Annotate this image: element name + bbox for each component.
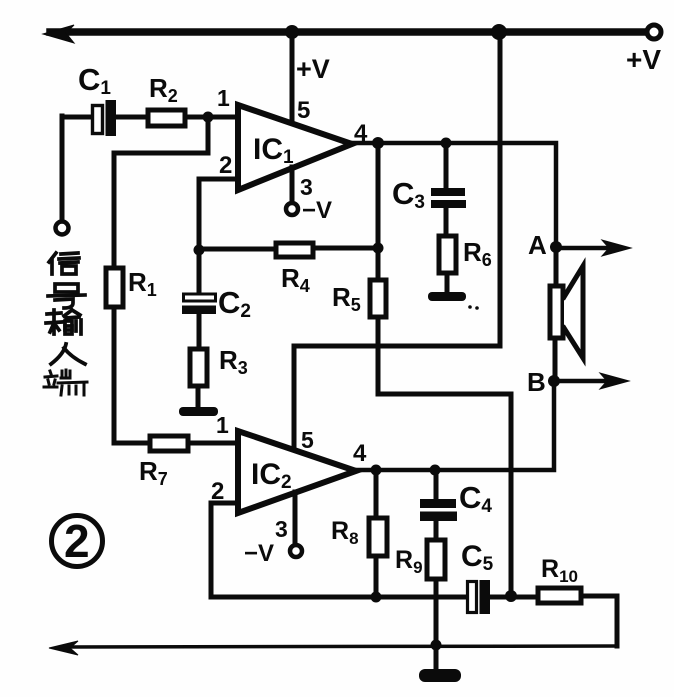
wire B to IC2 output bbox=[356, 381, 554, 470]
node B bbox=[548, 375, 560, 387]
svg-text:+V: +V bbox=[626, 44, 661, 75]
resistor R10 bbox=[510, 588, 617, 646]
svg-text:1: 1 bbox=[217, 85, 230, 111]
resistor R1 bbox=[106, 268, 123, 307]
capacitor C4 bbox=[420, 470, 457, 541]
node +V terminal right bbox=[647, 25, 661, 39]
char duan bbox=[44, 370, 87, 395]
wire R7 to IC2 pin1 bbox=[188, 441, 237, 446]
wire R6 to ground bbox=[445, 273, 450, 293]
node pin1 junction bbox=[203, 112, 214, 123]
svg-text:3: 3 bbox=[275, 516, 288, 542]
wire R9 to bottom rail bbox=[434, 579, 439, 645]
wire bottom -V rail bbox=[62, 646, 617, 647]
svg-text:4: 4 bbox=[354, 120, 368, 147]
wire +V drop to IC2 pin5 bbox=[294, 32, 500, 451]
svg-text:2: 2 bbox=[219, 152, 232, 179]
node rail arrowhead left bbox=[43, 25, 74, 43]
svg-text:−V: −V bbox=[302, 197, 332, 224]
svg-text:B: B bbox=[527, 367, 546, 397]
svg-text:+V: +V bbox=[296, 54, 330, 84]
wire node1 to R1 to R7 bbox=[114, 117, 208, 443]
svg-text:2: 2 bbox=[211, 478, 224, 505]
speaker bbox=[550, 247, 583, 381]
capacitor C3 bbox=[431, 143, 466, 237]
capacitor C1 bbox=[62, 100, 148, 136]
wire IC1 pin2 bbox=[199, 179, 237, 250]
op-amp IC2 bbox=[238, 431, 356, 513]
wire IC1 output to A bbox=[352, 143, 556, 243]
svg-text:2: 2 bbox=[64, 515, 90, 567]
node -V terminal IC2 bbox=[290, 545, 302, 557]
svg-text:4: 4 bbox=[353, 440, 367, 467]
ground below R6 bbox=[428, 292, 466, 301]
node junction rail/+V drop bbox=[491, 24, 507, 40]
resistor R9 bbox=[427, 540, 445, 579]
svg-text:A: A bbox=[528, 230, 547, 260]
ground below R3 bbox=[179, 407, 218, 416]
resistor R7 bbox=[150, 436, 188, 451]
resistor R8 bbox=[369, 470, 387, 597]
wire IC2 pin3 bbox=[293, 492, 298, 545]
wire R5 branch bbox=[378, 143, 511, 592]
svg-text:5: 5 bbox=[297, 97, 310, 124]
node -V terminal IC1 bbox=[286, 203, 298, 215]
wire input drop bbox=[60, 116, 65, 221]
char hao bbox=[48, 284, 85, 308]
node junction rail/IC1 pin5 bbox=[285, 25, 299, 39]
ground at bottom bbox=[434, 645, 439, 671]
node output junction C3 bbox=[441, 138, 452, 149]
svg-text:1: 1 bbox=[216, 412, 229, 438]
node pin2 junction bbox=[194, 245, 205, 256]
resistor R4 bbox=[199, 243, 378, 257]
capacitor C5 bbox=[468, 580, 511, 614]
label Chinese input terminal (drawn strokes) bbox=[44, 253, 87, 395]
char ru bbox=[51, 344, 85, 364]
node A bbox=[550, 241, 562, 253]
node R9/bottom rail junction bbox=[431, 640, 442, 651]
node R4/R5 junction bbox=[373, 243, 384, 254]
wire A output arrow bbox=[556, 246, 612, 251]
node output junction R5 bbox=[372, 137, 384, 149]
wire B output arrow bbox=[554, 379, 610, 384]
node IC2 out junction R8 bbox=[371, 465, 382, 476]
node IC2 out junction C4 bbox=[430, 465, 441, 476]
wire IC1 pin5 to rail bbox=[290, 32, 295, 124]
svg-text:−V: −V bbox=[244, 540, 274, 567]
wire IC2 pin2 feedback bbox=[211, 503, 466, 597]
capacitor C2 bbox=[182, 250, 216, 314]
figure number circled 2 bbox=[52, 515, 103, 567]
char xin bbox=[49, 253, 79, 274]
node C5/R10 junction bbox=[505, 590, 517, 602]
resistor R6 bbox=[439, 236, 456, 273]
wire top supply rail bbox=[50, 28, 647, 36]
svg-text:5: 5 bbox=[301, 427, 314, 453]
wire IC1 pin3 bbox=[290, 167, 295, 203]
resistor R2 bbox=[148, 110, 185, 126]
wire R2 to node1 bbox=[185, 115, 237, 120]
op-amp IC1 bbox=[238, 105, 352, 190]
resistor R5 bbox=[370, 280, 386, 317]
char shu bbox=[46, 310, 81, 334]
node R8/feedback junction bbox=[371, 592, 382, 603]
resistor R3 bbox=[190, 312, 207, 408]
node input terminal bbox=[56, 222, 69, 235]
